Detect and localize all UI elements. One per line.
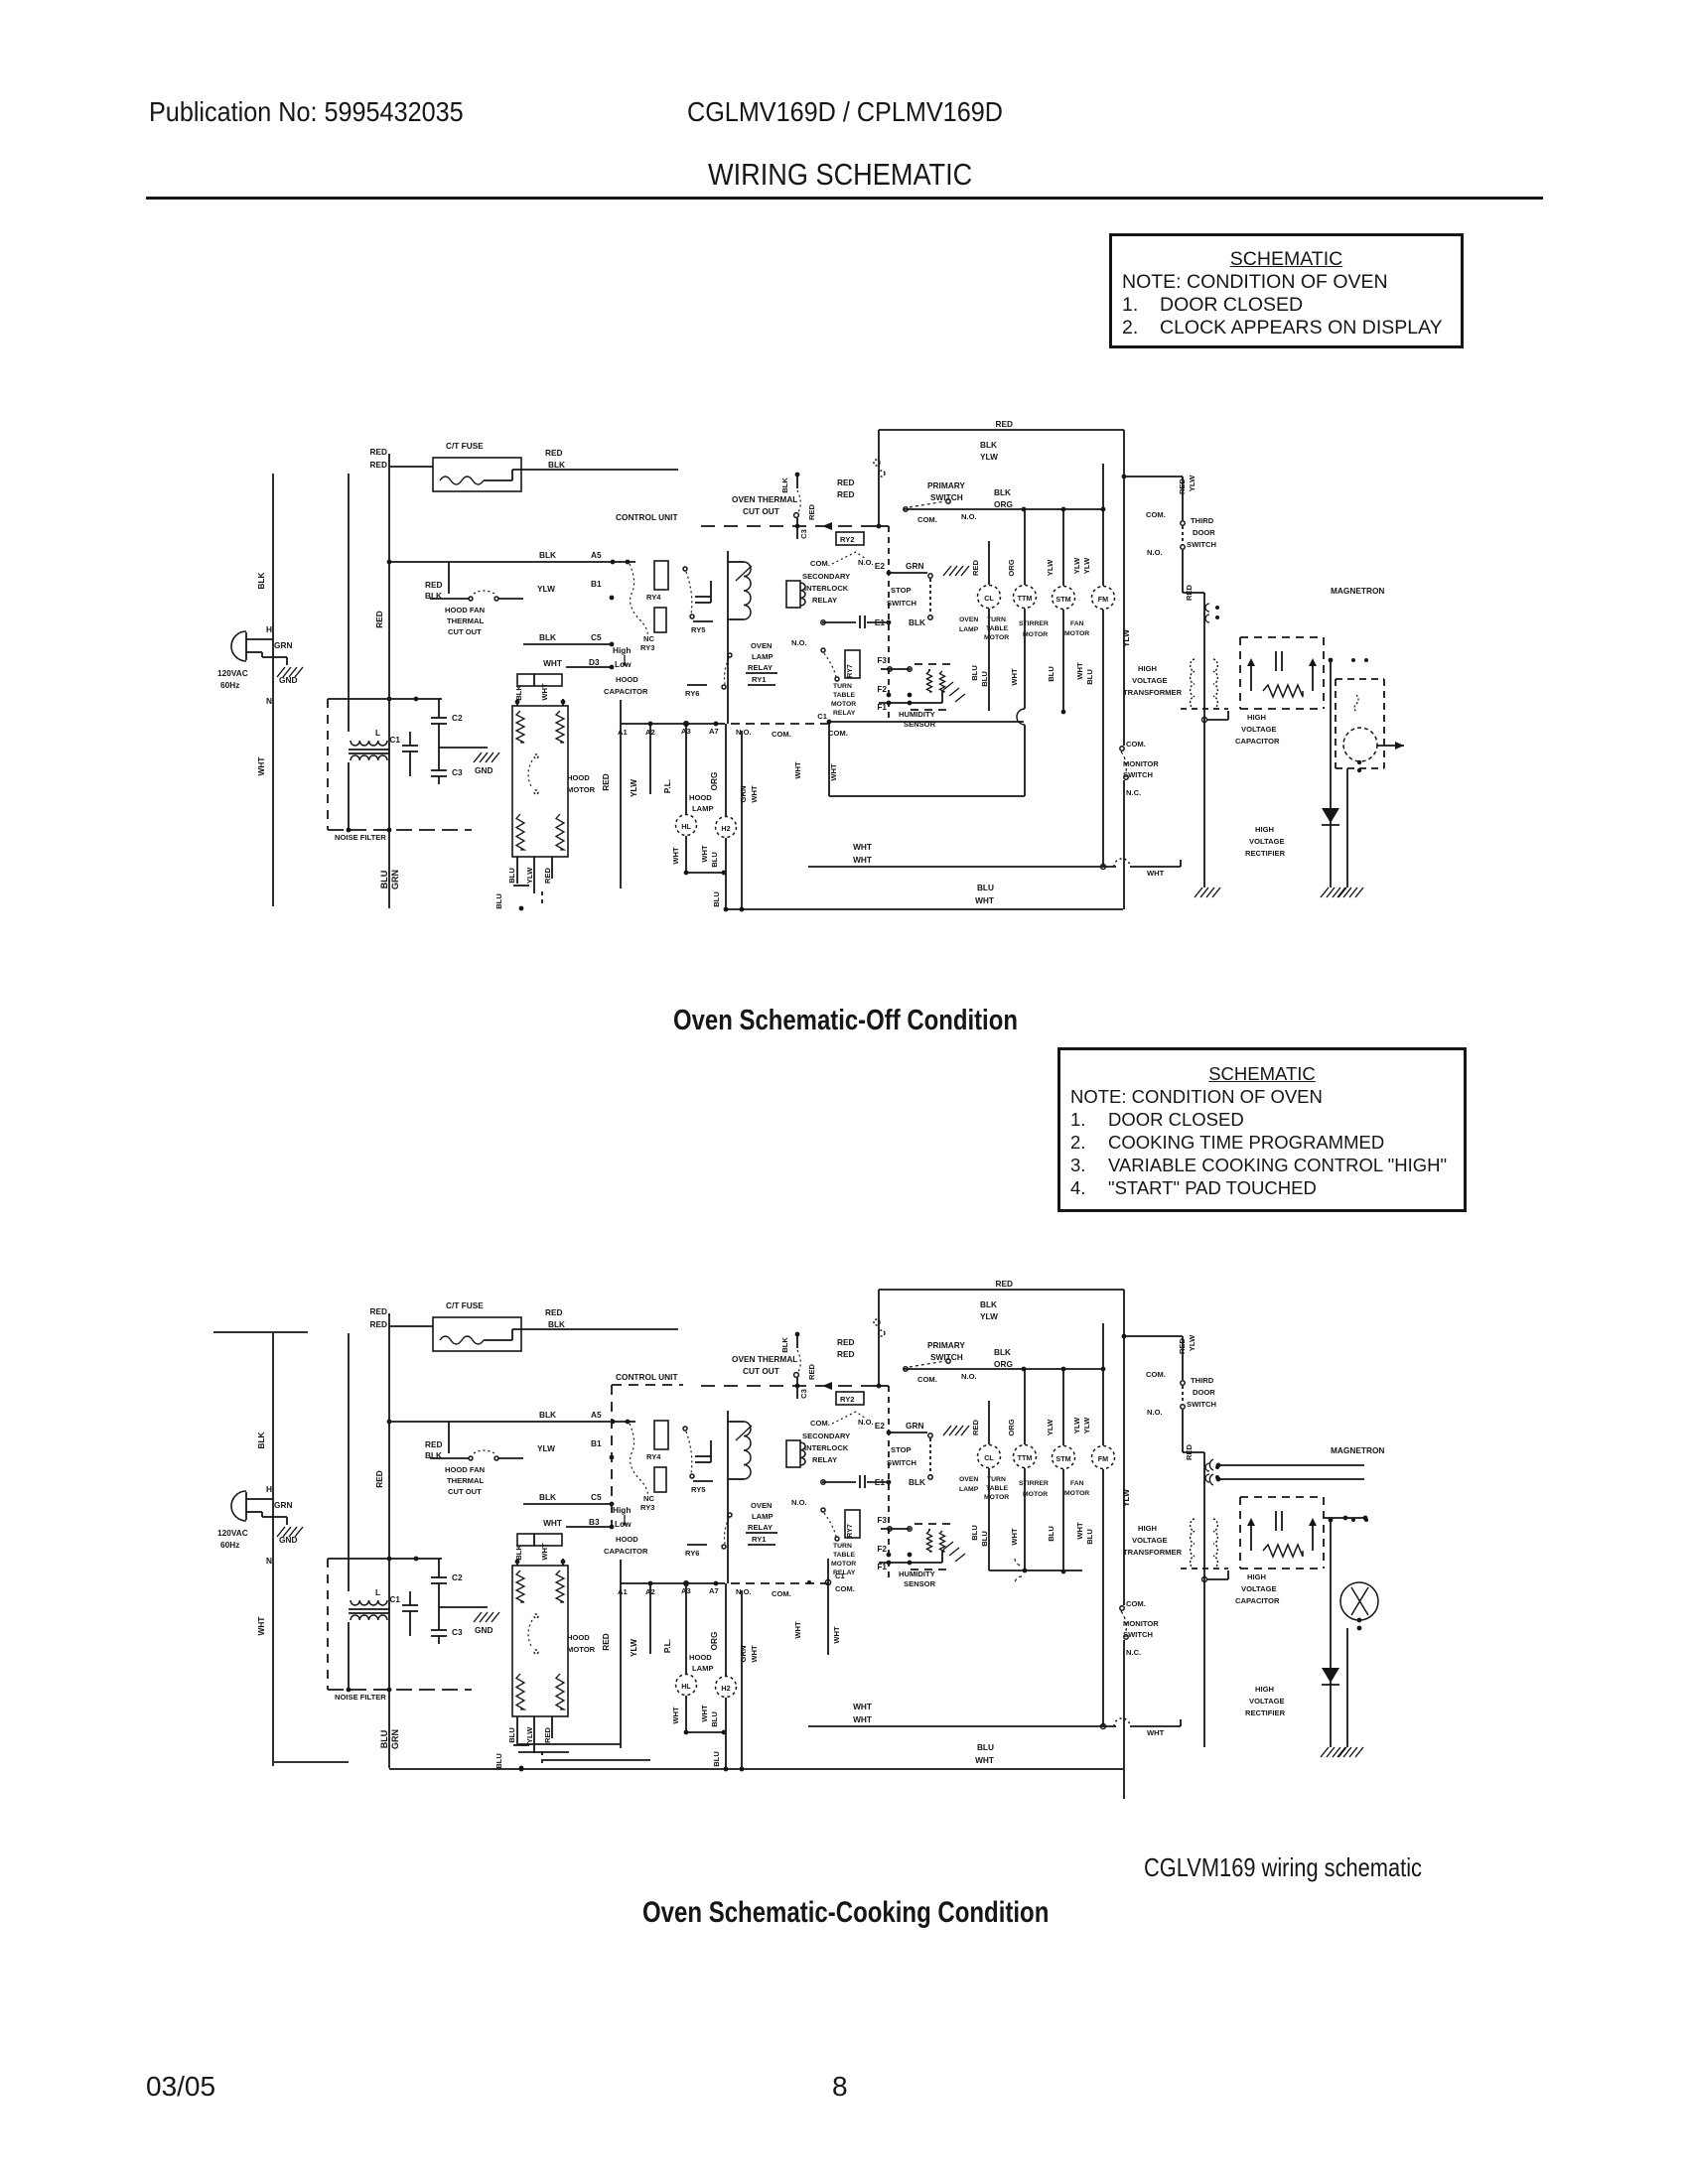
svg-text:LAMP: LAMP — [959, 626, 979, 633]
svg-text:WHT: WHT — [1147, 1728, 1165, 1737]
svg-text:HOOD FAN: HOOD FAN — [445, 606, 485, 614]
svg-text:WHT: WHT — [1147, 869, 1165, 878]
svg-text:YLW: YLW — [629, 779, 638, 797]
svg-text:NC: NC — [643, 634, 654, 643]
svg-text:HOOD: HOOD — [689, 793, 712, 802]
svg-text:TABLE: TABLE — [833, 692, 856, 699]
svg-text:WHT: WHT — [671, 847, 680, 865]
svg-text:CONTROL UNIT: CONTROL UNIT — [616, 1372, 678, 1382]
svg-text:SWITCH: SWITCH — [887, 599, 916, 608]
svg-text:BLU: BLU — [710, 1711, 719, 1727]
svg-text:COM.: COM. — [1126, 1599, 1146, 1608]
svg-text:SWITCH: SWITCH — [1123, 770, 1153, 779]
svg-text:OVEN: OVEN — [751, 641, 773, 650]
svg-text:BLK: BLK — [539, 1410, 556, 1420]
svg-text:RED: RED — [1178, 1337, 1187, 1354]
svg-text:N.O.: N.O. — [858, 558, 874, 567]
svg-text:STOP: STOP — [891, 1445, 912, 1454]
svg-text:STIRRER: STIRRER — [1019, 620, 1049, 627]
svg-text:N.O.: N.O. — [1147, 548, 1163, 557]
svg-text:BLU: BLU — [980, 1531, 989, 1547]
svg-text:HOOD: HOOD — [616, 675, 638, 684]
svg-text:RED: RED — [369, 447, 387, 457]
svg-text:ORG: ORG — [994, 1359, 1013, 1369]
svg-text:C1: C1 — [835, 1571, 845, 1580]
svg-text:YLW: YLW — [1046, 559, 1055, 576]
svg-text:N.C.: N.C. — [1126, 1648, 1141, 1657]
svg-text:HIGH: HIGH — [1247, 1572, 1266, 1581]
svg-text:BLU: BLU — [977, 1742, 994, 1752]
svg-text:BLU: BLU — [379, 871, 389, 889]
svg-text:WHT: WHT — [1010, 1528, 1019, 1546]
svg-text:C3: C3 — [452, 1627, 463, 1637]
svg-text:MAGNETRON: MAGNETRON — [1331, 586, 1384, 596]
svg-text:MONITOR: MONITOR — [1123, 759, 1159, 768]
svg-text:High: High — [613, 645, 631, 655]
svg-text:RELAY: RELAY — [833, 710, 856, 717]
svg-text:BLK: BLK — [780, 1337, 789, 1353]
svg-text:C1: C1 — [389, 735, 400, 745]
svg-text:CL: CL — [984, 1453, 994, 1462]
svg-text:BLU: BLU — [1047, 666, 1055, 682]
svg-text:RED: RED — [807, 503, 816, 520]
svg-text:CL: CL — [984, 594, 994, 603]
svg-text:WHT: WHT — [853, 842, 872, 852]
svg-text:MOTOR: MOTOR — [1064, 630, 1089, 637]
svg-text:N.O.: N.O. — [858, 1418, 874, 1427]
svg-text:N.C.: N.C. — [1126, 788, 1141, 797]
svg-text:C/T FUSE: C/T FUSE — [446, 441, 484, 451]
svg-text:BLK: BLK — [514, 1545, 523, 1561]
svg-text:WHT: WHT — [832, 1626, 841, 1644]
svg-text:FM: FM — [1098, 595, 1108, 604]
svg-text:F2: F2 — [877, 1544, 887, 1554]
svg-text:ORG: ORG — [709, 772, 719, 791]
svg-text:CAPACITOR: CAPACITOR — [604, 687, 648, 696]
svg-text:RY6: RY6 — [685, 689, 700, 698]
svg-text:TRANSFORMER: TRANSFORMER — [1123, 1548, 1183, 1557]
svg-text:N.O.: N.O. — [791, 638, 807, 647]
svg-text:LAMP: LAMP — [692, 1664, 714, 1673]
svg-text:STOP: STOP — [891, 586, 912, 595]
svg-text:GND: GND — [475, 765, 492, 775]
svg-text:RED: RED — [374, 611, 384, 628]
svg-text:CUT OUT: CUT OUT — [743, 1366, 779, 1376]
svg-text:RED: RED — [601, 773, 611, 791]
svg-text:RY4: RY4 — [646, 593, 661, 602]
svg-text:RY1: RY1 — [752, 675, 767, 684]
svg-text:YLW: YLW — [980, 1311, 998, 1321]
svg-text:A1: A1 — [618, 728, 628, 737]
svg-text:INTERLOCK: INTERLOCK — [804, 584, 849, 593]
svg-text:BLK: BLK — [256, 572, 266, 589]
svg-text:F3: F3 — [877, 655, 887, 665]
svg-text:RED: RED — [374, 1470, 384, 1488]
svg-text:VOLTAGE: VOLTAGE — [1249, 1697, 1285, 1706]
svg-text:RED: RED — [545, 448, 563, 458]
svg-text:COM.: COM. — [1126, 740, 1146, 749]
svg-text:WHT: WHT — [1075, 1522, 1084, 1540]
svg-text:C5: C5 — [591, 1492, 602, 1502]
svg-text:B1: B1 — [591, 579, 602, 589]
svg-text:RY5: RY5 — [691, 1485, 706, 1494]
svg-text:RED: RED — [995, 419, 1013, 429]
svg-text:WHT: WHT — [1010, 668, 1019, 686]
svg-text:WHT: WHT — [750, 1645, 759, 1663]
svg-text:H2: H2 — [721, 824, 730, 833]
svg-text:GND: GND — [279, 675, 297, 685]
svg-text:STM: STM — [1055, 1454, 1070, 1463]
svg-text:WHT: WHT — [543, 1518, 562, 1528]
svg-text:YLW: YLW — [1072, 1417, 1081, 1433]
svg-text:BLK: BLK — [539, 1492, 556, 1502]
svg-text:THERMAL: THERMAL — [447, 1476, 484, 1485]
svg-text:CUT OUT: CUT OUT — [448, 627, 482, 636]
svg-text:WHT: WHT — [256, 1617, 266, 1636]
svg-text:WHT: WHT — [256, 757, 266, 776]
svg-text:BLU: BLU — [970, 1525, 979, 1541]
svg-text:E2: E2 — [875, 1421, 886, 1431]
svg-text:RECTIFIER: RECTIFIER — [1245, 849, 1286, 858]
svg-text:BLK: BLK — [909, 617, 925, 627]
svg-text:BLK: BLK — [780, 478, 789, 493]
svg-text:GRN: GRN — [274, 1500, 292, 1510]
svg-text:NOISE FILTER: NOISE FILTER — [335, 1693, 386, 1702]
svg-text:COM.: COM. — [828, 729, 848, 738]
svg-text:RED: RED — [807, 1363, 816, 1380]
svg-text:GND: GND — [475, 1625, 492, 1635]
svg-text:B3: B3 — [589, 1517, 600, 1527]
svg-text:VOLTAGE: VOLTAGE — [1241, 1584, 1277, 1593]
svg-text:C1: C1 — [817, 712, 827, 721]
svg-text:RY2: RY2 — [840, 535, 855, 544]
svg-text:COM.: COM. — [1146, 510, 1166, 519]
svg-text:C3: C3 — [799, 1389, 808, 1399]
svg-text:RY1: RY1 — [752, 1535, 767, 1544]
svg-text:A7: A7 — [709, 727, 719, 736]
svg-text:BLU: BLU — [712, 891, 721, 907]
svg-text:BLU: BLU — [1085, 1529, 1094, 1545]
svg-text:N.O.: N.O. — [736, 1587, 752, 1596]
svg-text:COM.: COM. — [810, 1419, 830, 1428]
svg-text:RELAY: RELAY — [812, 1455, 837, 1464]
svg-text:GRN: GRN — [390, 870, 400, 889]
svg-text:LAMP: LAMP — [959, 1486, 979, 1493]
svg-text:N: N — [266, 696, 272, 706]
svg-text:RY7: RY7 — [845, 664, 854, 678]
svg-text:COM.: COM. — [917, 515, 937, 524]
svg-text:BLU: BLU — [712, 1751, 721, 1767]
svg-text:BLK: BLK — [548, 1319, 565, 1329]
svg-text:SECONDARY: SECONDARY — [802, 572, 850, 581]
svg-text:DOOR: DOOR — [1193, 1388, 1215, 1397]
svg-text:FM: FM — [1098, 1454, 1108, 1463]
svg-text:VOLTAGE: VOLTAGE — [1249, 837, 1285, 846]
svg-text:GRN: GRN — [390, 1729, 400, 1749]
svg-text:BLK: BLK — [539, 632, 556, 642]
svg-text:RY2: RY2 — [840, 1395, 855, 1404]
svg-text:SECONDARY: SECONDARY — [802, 1432, 850, 1440]
svg-text:BLK: BLK — [256, 1432, 266, 1448]
svg-text:60Hz: 60Hz — [220, 1540, 239, 1550]
svg-text:BLK: BLK — [539, 550, 556, 560]
svg-text:BLU: BLU — [379, 1730, 389, 1749]
svg-text:PRIMARY: PRIMARY — [927, 1340, 965, 1350]
svg-text:N.O.: N.O. — [736, 728, 752, 737]
svg-text:RELAY: RELAY — [812, 596, 837, 605]
svg-text:LAMP: LAMP — [752, 652, 774, 661]
svg-text:CAPACITOR: CAPACITOR — [604, 1547, 648, 1556]
svg-text:N.O.: N.O. — [791, 1498, 807, 1507]
svg-text:MOTOR: MOTOR — [1023, 1491, 1048, 1498]
svg-text:YLW: YLW — [525, 867, 534, 884]
svg-text:RED: RED — [837, 478, 855, 487]
svg-text:HL: HL — [681, 822, 691, 831]
svg-text:WHT: WHT — [853, 1714, 872, 1724]
svg-text:BLU: BLU — [1085, 669, 1094, 685]
svg-text:RY5: RY5 — [691, 625, 706, 634]
svg-text:BLU: BLU — [980, 671, 989, 687]
svg-text:RED: RED — [369, 1306, 387, 1316]
svg-text:INTERLOCK: INTERLOCK — [804, 1443, 849, 1452]
svg-text:BLU: BLU — [494, 1753, 503, 1769]
svg-text:BLK: BLK — [514, 685, 523, 701]
svg-text:VOLTAGE: VOLTAGE — [1241, 725, 1277, 734]
svg-text:RED: RED — [601, 1633, 611, 1651]
svg-text:RED: RED — [1178, 478, 1187, 494]
svg-text:BLK: BLK — [980, 1299, 997, 1309]
svg-text:120VAC: 120VAC — [217, 1528, 248, 1538]
svg-text:TTM: TTM — [1018, 594, 1033, 603]
svg-text:RY7: RY7 — [845, 1524, 854, 1538]
svg-text:C3: C3 — [799, 529, 808, 539]
svg-text:RY4: RY4 — [646, 1452, 661, 1461]
svg-text:THIRD: THIRD — [1191, 516, 1214, 525]
svg-text:HOOD FAN: HOOD FAN — [445, 1465, 485, 1474]
svg-text:GRN: GRN — [739, 1646, 748, 1663]
svg-text:SENSOR: SENSOR — [904, 1579, 936, 1588]
svg-text:RED: RED — [837, 1337, 855, 1347]
svg-text:MOTOR: MOTOR — [1023, 631, 1048, 638]
svg-text:RED: RED — [369, 460, 387, 470]
svg-text:MAGNETRON: MAGNETRON — [1331, 1445, 1384, 1455]
svg-text:MOTOR: MOTOR — [984, 1494, 1009, 1501]
svg-text:YLW: YLW — [1082, 557, 1091, 574]
svg-text:MOTOR: MOTOR — [1064, 1490, 1089, 1497]
svg-text:RY6: RY6 — [685, 1549, 700, 1558]
svg-text:RED: RED — [1185, 1443, 1194, 1460]
svg-text:YLW: YLW — [537, 584, 555, 594]
svg-text:E2: E2 — [875, 561, 886, 571]
svg-text:HOOD: HOOD — [567, 773, 590, 782]
svg-text:ORG: ORG — [1007, 559, 1016, 576]
svg-text:N.O.: N.O. — [1147, 1408, 1163, 1417]
svg-text:MOTOR: MOTOR — [567, 785, 596, 794]
svg-text:RED: RED — [425, 1439, 443, 1449]
svg-text:HIGH: HIGH — [1255, 825, 1274, 834]
svg-text:L: L — [375, 728, 380, 738]
svg-text:STM: STM — [1055, 595, 1070, 604]
svg-text:WHT: WHT — [540, 1543, 549, 1561]
svg-text:WHT: WHT — [793, 761, 802, 779]
svg-text:BLK: BLK — [994, 487, 1011, 497]
svg-text:HIGH: HIGH — [1247, 713, 1266, 722]
svg-text:YLW: YLW — [1121, 629, 1131, 647]
svg-text:HUMIDITY: HUMIDITY — [899, 710, 935, 719]
svg-text:SWITCH: SWITCH — [887, 1458, 916, 1467]
svg-text:CAPACITOR: CAPACITOR — [1235, 737, 1280, 746]
svg-text:B1: B1 — [591, 1438, 602, 1448]
svg-text:MOTOR: MOTOR — [831, 701, 856, 708]
svg-text:NOISE FILTER: NOISE FILTER — [335, 833, 386, 842]
svg-text:YLW: YLW — [1188, 1334, 1196, 1351]
svg-text:GND: GND — [279, 1535, 297, 1545]
svg-text:OVEN: OVEN — [959, 616, 978, 623]
svg-text:P.L.: P.L. — [662, 1639, 672, 1653]
svg-text:YLW: YLW — [525, 1726, 534, 1743]
svg-text:N: N — [266, 1556, 272, 1566]
svg-text:TRANSFORMER: TRANSFORMER — [1123, 688, 1183, 697]
svg-text:BLK: BLK — [909, 1477, 925, 1487]
svg-text:WHT: WHT — [829, 763, 838, 781]
svg-text:P.L.: P.L. — [662, 779, 672, 793]
svg-text:D3: D3 — [589, 657, 600, 667]
svg-text:F2: F2 — [877, 684, 887, 694]
svg-text:MOTOR: MOTOR — [831, 1561, 856, 1568]
svg-text:COM.: COM. — [1146, 1370, 1166, 1379]
svg-text:GRN: GRN — [906, 1421, 923, 1431]
svg-text:OVEN THERMAL: OVEN THERMAL — [732, 494, 797, 504]
svg-text:GRN: GRN — [739, 786, 748, 803]
svg-text:ORG: ORG — [1007, 1419, 1016, 1435]
svg-text:YLW: YLW — [1082, 1417, 1091, 1433]
svg-text:VOLTAGE: VOLTAGE — [1132, 1536, 1168, 1545]
svg-text:RED: RED — [369, 1319, 387, 1329]
svg-text:HOOD: HOOD — [616, 1535, 638, 1544]
svg-text:RY3: RY3 — [640, 1503, 655, 1512]
svg-text:H2: H2 — [721, 1684, 730, 1693]
svg-text:WHT: WHT — [793, 1621, 802, 1639]
svg-text:YLW: YLW — [1046, 1419, 1055, 1435]
svg-text:NC: NC — [643, 1494, 654, 1503]
svg-text:RED: RED — [425, 580, 443, 590]
svg-text:CONTROL UNIT: CONTROL UNIT — [616, 512, 678, 522]
svg-text:YLW: YLW — [1188, 475, 1196, 491]
svg-text:RED: RED — [971, 1419, 980, 1435]
svg-text:HL: HL — [681, 1682, 691, 1691]
svg-text:BLU: BLU — [507, 1727, 516, 1743]
svg-text:WHT: WHT — [1075, 662, 1084, 680]
svg-text:BLU: BLU — [507, 868, 516, 884]
svg-text:MOTOR: MOTOR — [567, 1645, 596, 1654]
svg-text:LAMP: LAMP — [752, 1512, 774, 1521]
svg-text:FAN: FAN — [1070, 1480, 1084, 1487]
svg-text:GRN: GRN — [906, 561, 923, 571]
svg-text:A1: A1 — [618, 1587, 628, 1596]
svg-text:OVEN: OVEN — [959, 1476, 978, 1483]
svg-text:ORG: ORG — [994, 499, 1013, 509]
svg-text:COM.: COM. — [917, 1375, 937, 1384]
svg-text:C3: C3 — [452, 767, 463, 777]
svg-text:BLU: BLU — [710, 852, 719, 868]
svg-text:BLU: BLU — [977, 883, 994, 892]
svg-text:HOOD: HOOD — [689, 1653, 712, 1662]
svg-text:HOOD: HOOD — [567, 1633, 590, 1642]
svg-text:WHT: WHT — [975, 895, 994, 905]
svg-text:RED: RED — [971, 559, 980, 576]
svg-text:SWITCH: SWITCH — [1187, 1400, 1216, 1409]
svg-text:YLW: YLW — [1121, 1489, 1131, 1507]
svg-text:C/T FUSE: C/T FUSE — [446, 1300, 484, 1310]
svg-text:N.O.: N.O. — [961, 512, 977, 521]
svg-text:F3: F3 — [877, 1515, 887, 1525]
svg-text:FAN: FAN — [1070, 620, 1084, 627]
svg-text:BLK: BLK — [548, 460, 565, 470]
svg-text:60Hz: 60Hz — [220, 680, 239, 690]
svg-text:WHT: WHT — [853, 855, 872, 865]
svg-text:WHT: WHT — [540, 683, 549, 701]
svg-text:TTM: TTM — [1018, 1453, 1033, 1462]
svg-text:RED: RED — [545, 1307, 563, 1317]
svg-text:WHT: WHT — [543, 658, 562, 668]
svg-text:RED: RED — [995, 1279, 1013, 1289]
svg-text:WHT: WHT — [853, 1702, 872, 1711]
svg-text:WHT: WHT — [671, 1706, 680, 1724]
svg-text:BLK: BLK — [994, 1347, 1011, 1357]
svg-text:RY3: RY3 — [640, 643, 655, 652]
svg-text:HIGH: HIGH — [1255, 1685, 1274, 1694]
svg-text:CUT OUT: CUT OUT — [448, 1487, 482, 1496]
svg-text:C1: C1 — [389, 1594, 400, 1604]
svg-text:HUMIDITY: HUMIDITY — [899, 1570, 935, 1578]
svg-text:A7: A7 — [709, 1586, 719, 1595]
svg-text:SWITCH: SWITCH — [1187, 540, 1216, 549]
svg-text:WHT: WHT — [700, 845, 709, 863]
svg-text:RELAY: RELAY — [748, 663, 773, 672]
svg-text:WHT: WHT — [975, 1755, 994, 1765]
svg-text:OVEN THERMAL: OVEN THERMAL — [732, 1354, 797, 1364]
svg-text:C2: C2 — [452, 1572, 463, 1582]
svg-text:SWITCH: SWITCH — [1123, 1630, 1153, 1639]
svg-text:CUT OUT: CUT OUT — [743, 506, 779, 516]
svg-text:C2: C2 — [452, 713, 463, 723]
svg-text:WHT: WHT — [700, 1705, 709, 1722]
svg-text:THIRD: THIRD — [1191, 1376, 1214, 1385]
svg-text:TURN: TURN — [833, 683, 852, 690]
svg-text:ORG: ORG — [709, 1632, 719, 1651]
svg-text:YLW: YLW — [629, 1639, 638, 1657]
svg-text:LAMP: LAMP — [692, 804, 714, 813]
svg-text:YLW: YLW — [980, 452, 998, 462]
svg-text:120VAC: 120VAC — [217, 668, 248, 678]
svg-text:HIGH: HIGH — [1138, 664, 1157, 673]
svg-text:CAPACITOR: CAPACITOR — [1235, 1596, 1280, 1605]
svg-text:BLU: BLU — [1047, 1526, 1055, 1542]
svg-text:A5: A5 — [591, 1410, 602, 1420]
svg-text:RED: RED — [543, 1726, 552, 1743]
svg-text:RED: RED — [837, 489, 855, 499]
svg-text:VOLTAGE: VOLTAGE — [1132, 676, 1168, 685]
svg-text:RECTIFIER: RECTIFIER — [1245, 1708, 1286, 1717]
svg-text:COM.: COM. — [810, 559, 830, 568]
svg-text:BLU: BLU — [970, 665, 979, 681]
svg-text:COM.: COM. — [772, 730, 791, 739]
svg-text:N.O.: N.O. — [961, 1372, 977, 1381]
svg-text:RED: RED — [1185, 584, 1194, 601]
svg-text:High: High — [613, 1505, 631, 1515]
svg-text:TURN: TURN — [833, 1543, 852, 1550]
svg-text:COM.: COM. — [835, 1584, 855, 1593]
